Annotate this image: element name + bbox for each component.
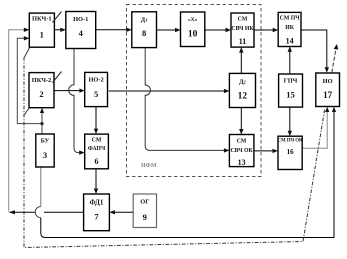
- svg-text:1: 1: [40, 29, 44, 39]
- arrowhead into SM PCh IK: [273, 28, 279, 32]
- svg-text:ИК: ИК: [285, 25, 295, 31]
- svg-text:17: 17: [323, 90, 333, 100]
- arrowhead up into SM SVCh IK bottom: [239, 47, 243, 53]
- arrowhead down into IO top: [325, 67, 329, 73]
- svg-text:10: 10: [188, 29, 198, 39]
- svg-text:ПКЧ-2: ПКЧ-2: [32, 77, 52, 84]
- block 9 OG: [133, 194, 156, 228]
- arrowhead into SM FAPCh left: [79, 150, 85, 154]
- hop of BU vertical over feedback wire: [35, 207, 41, 218]
- wire: BU top to PKCh-1 input 2 and PKCh-2 bottom: [17, 38, 42, 134]
- block 4 NO-1: [66, 12, 96, 49]
- tuning slash on PKCh-1: [53, 12, 62, 23]
- arrowhead into PKCh-1 input 2: [24, 36, 30, 40]
- block 15 GPCh: [279, 74, 303, 107]
- svg-text:ГПЧ: ГПЧ: [284, 78, 298, 85]
- block 16 SM PCh OK: [278, 136, 303, 169]
- dashed output arrow from IO top going up-right: [332, 47, 336, 73]
- svg-text:СМ: СМ: [237, 138, 247, 144]
- arrowhead up into PKCh-2 bottom: [40, 108, 44, 113]
- svg-text:11: 11: [239, 37, 247, 46]
- svg-text:ПКЧ-1: ПКЧ-1: [32, 16, 52, 23]
- arrowhead into PKCh-1 input 1: [24, 28, 30, 32]
- svg-text:ИФМ: ИФМ: [141, 163, 157, 169]
- wire: PKCh-1 to NO-1: [54, 29, 63, 31]
- wire: OG to FD1 right input: [112, 211, 133, 213]
- block 7 FD1: [84, 194, 110, 231]
- svg-text:НО-1: НО-1: [73, 16, 88, 23]
- svg-text:СМ: СМ: [92, 138, 102, 144]
- arrowhead down into SM PCh OK top: [288, 131, 292, 137]
- block 5 NO-2: [85, 72, 108, 106]
- block 6 SM FAPCh: [85, 134, 109, 169]
- arrowhead down into SM SVCh OK top: [239, 129, 243, 135]
- block 17 IO: [316, 73, 340, 107]
- svg-text:6: 6: [95, 157, 99, 166]
- dash-dot corner link to PKCh-2: [24, 108, 29, 116]
- block 12 D2: [229, 73, 255, 107]
- svg-text:ИО: ИО: [323, 78, 333, 85]
- arrowhead feedback pointing left at x8.7: [9, 210, 15, 214]
- svg-text:СВЧ ОК: СВЧ ОК: [231, 148, 254, 154]
- svg-text:Д2: Д2: [239, 79, 246, 86]
- svg-text:9: 9: [143, 212, 147, 222]
- block 14 SM PCh IK: [278, 12, 301, 46]
- dash-dot corner link to PKCh-1: [24, 48, 30, 59]
- arrowhead into X10: [175, 28, 181, 32]
- block 3 BU: [36, 134, 54, 167]
- svg-text:«Х»: «Х»: [188, 17, 198, 23]
- arrowhead left into FD1 right edge: [109, 210, 115, 214]
- arrowhead into D1: [126, 28, 132, 32]
- svg-text:БУ: БУ: [41, 138, 50, 145]
- svg-text:8: 8: [142, 28, 146, 38]
- wire: NO-1 bottom down to SM FAPCh left (hops over PKCh-2/NO-2 wire): [69, 49, 82, 153]
- wire: D1 bottom down (hops over NO-2/D2 wire) then right to SM SVCh OK left: [145, 48, 224, 151]
- arrowhead into D2: [224, 89, 230, 93]
- wire: PKCh-2 to NO-2 with hop of NO-1 drop wire: [54, 90, 82, 92]
- wire: FD1 output feedback to PKCh-1 input 1: [10, 211, 84, 213]
- arrowhead up into IO bottom (from SM PCh OK): [325, 107, 329, 112]
- wire: GPCh bottom down into SM PCh OK top: [289, 107, 291, 134]
- wire: SM PCh IK right then down into IO top: [301, 30, 327, 70]
- block 8 D1: [132, 12, 157, 48]
- arrowhead into SM SVCh OK left: [224, 148, 230, 152]
- arrowhead into NO-1: [60, 28, 66, 32]
- svg-text:СМ ПЧ ОК: СМ ПЧ ОК: [278, 139, 303, 144]
- svg-text:СМ ПЧ: СМ ПЧ: [280, 16, 301, 22]
- wire: NO-2 to D2: [109, 90, 227, 92]
- arrowhead down into FD1 top: [94, 189, 98, 195]
- svg-text:16: 16: [287, 148, 295, 156]
- svg-text:4: 4: [79, 28, 84, 38]
- wire: SM FAPCh bottom down into FD1 top: [95, 169, 97, 192]
- svg-text:13: 13: [238, 158, 246, 167]
- svg-text:ФД1: ФД1: [90, 199, 104, 207]
- arrowhead up into IO bottom (from BU): [332, 107, 336, 112]
- svg-text:14: 14: [286, 36, 294, 45]
- wire: D2 top up into SM SVCh IK bottom: [240, 50, 242, 74]
- arrowhead down into SM FAPCh top: [94, 129, 98, 135]
- svg-text:НО-2: НО-2: [88, 77, 103, 84]
- junction dot: [40, 122, 43, 125]
- arrowhead of dashed output arrow: [334, 44, 339, 50]
- svg-text:СМ: СМ: [238, 16, 248, 22]
- arrowhead into NO-2: [79, 89, 84, 93]
- wire: NO-2 bottom down into SM FAPCh top: [95, 107, 97, 132]
- wire: D1 to X10: [157, 29, 179, 31]
- wire: D2 bottom down into SM SVCh OK top: [240, 108, 242, 133]
- block 1 PKCh-1: [29, 13, 54, 47]
- svg-text:15: 15: [286, 90, 295, 100]
- arrowhead into SM SVCh IK: [226, 28, 232, 32]
- wire: SM SVCh IK to SM PCh IK: [254, 29, 276, 31]
- wire: NO-1 to D1: [96, 29, 130, 31]
- wire: BU bottom down, right along bottom, up into IO bottom: [40, 167, 42, 207]
- arrowhead into SM PCh OK left: [273, 149, 279, 153]
- tuning slash on PKCh-2: [53, 72, 62, 83]
- svg-text:ФАПЧ: ФАПЧ: [88, 146, 106, 152]
- wire: SM PCh OK right then up into IO bottom: [302, 109, 327, 148]
- svg-text:12: 12: [238, 92, 248, 102]
- svg-text:СВЧ ИК: СВЧ ИК: [231, 26, 254, 32]
- svg-text:Д1: Д1: [141, 16, 148, 23]
- wire: SM SVCh OK to SM PCh OK: [254, 150, 276, 152]
- svg-text:3: 3: [43, 150, 47, 160]
- wire: X10 to SM SVCh IK: [205, 29, 229, 31]
- block 13 SM SVCh OK: [229, 135, 254, 168]
- block 2 PKCh-2: [29, 73, 54, 108]
- svg-text:ОГ: ОГ: [140, 199, 149, 206]
- svg-text:5: 5: [94, 89, 98, 99]
- block 10 multiplier X: [181, 12, 205, 47]
- wire: GPCh top up into SM PCh IK bottom: [289, 49, 291, 74]
- arrowhead up into SM PCh IK bottom: [288, 46, 292, 52]
- svg-text:2: 2: [39, 89, 43, 99]
- dashed box IFM: [127, 5, 262, 177]
- dash-dot control line from IO around bottom-left to PKCh-1 / PKCh-2: [24, 57, 325, 248]
- block 11 SM SVCh IK: [231, 13, 254, 47]
